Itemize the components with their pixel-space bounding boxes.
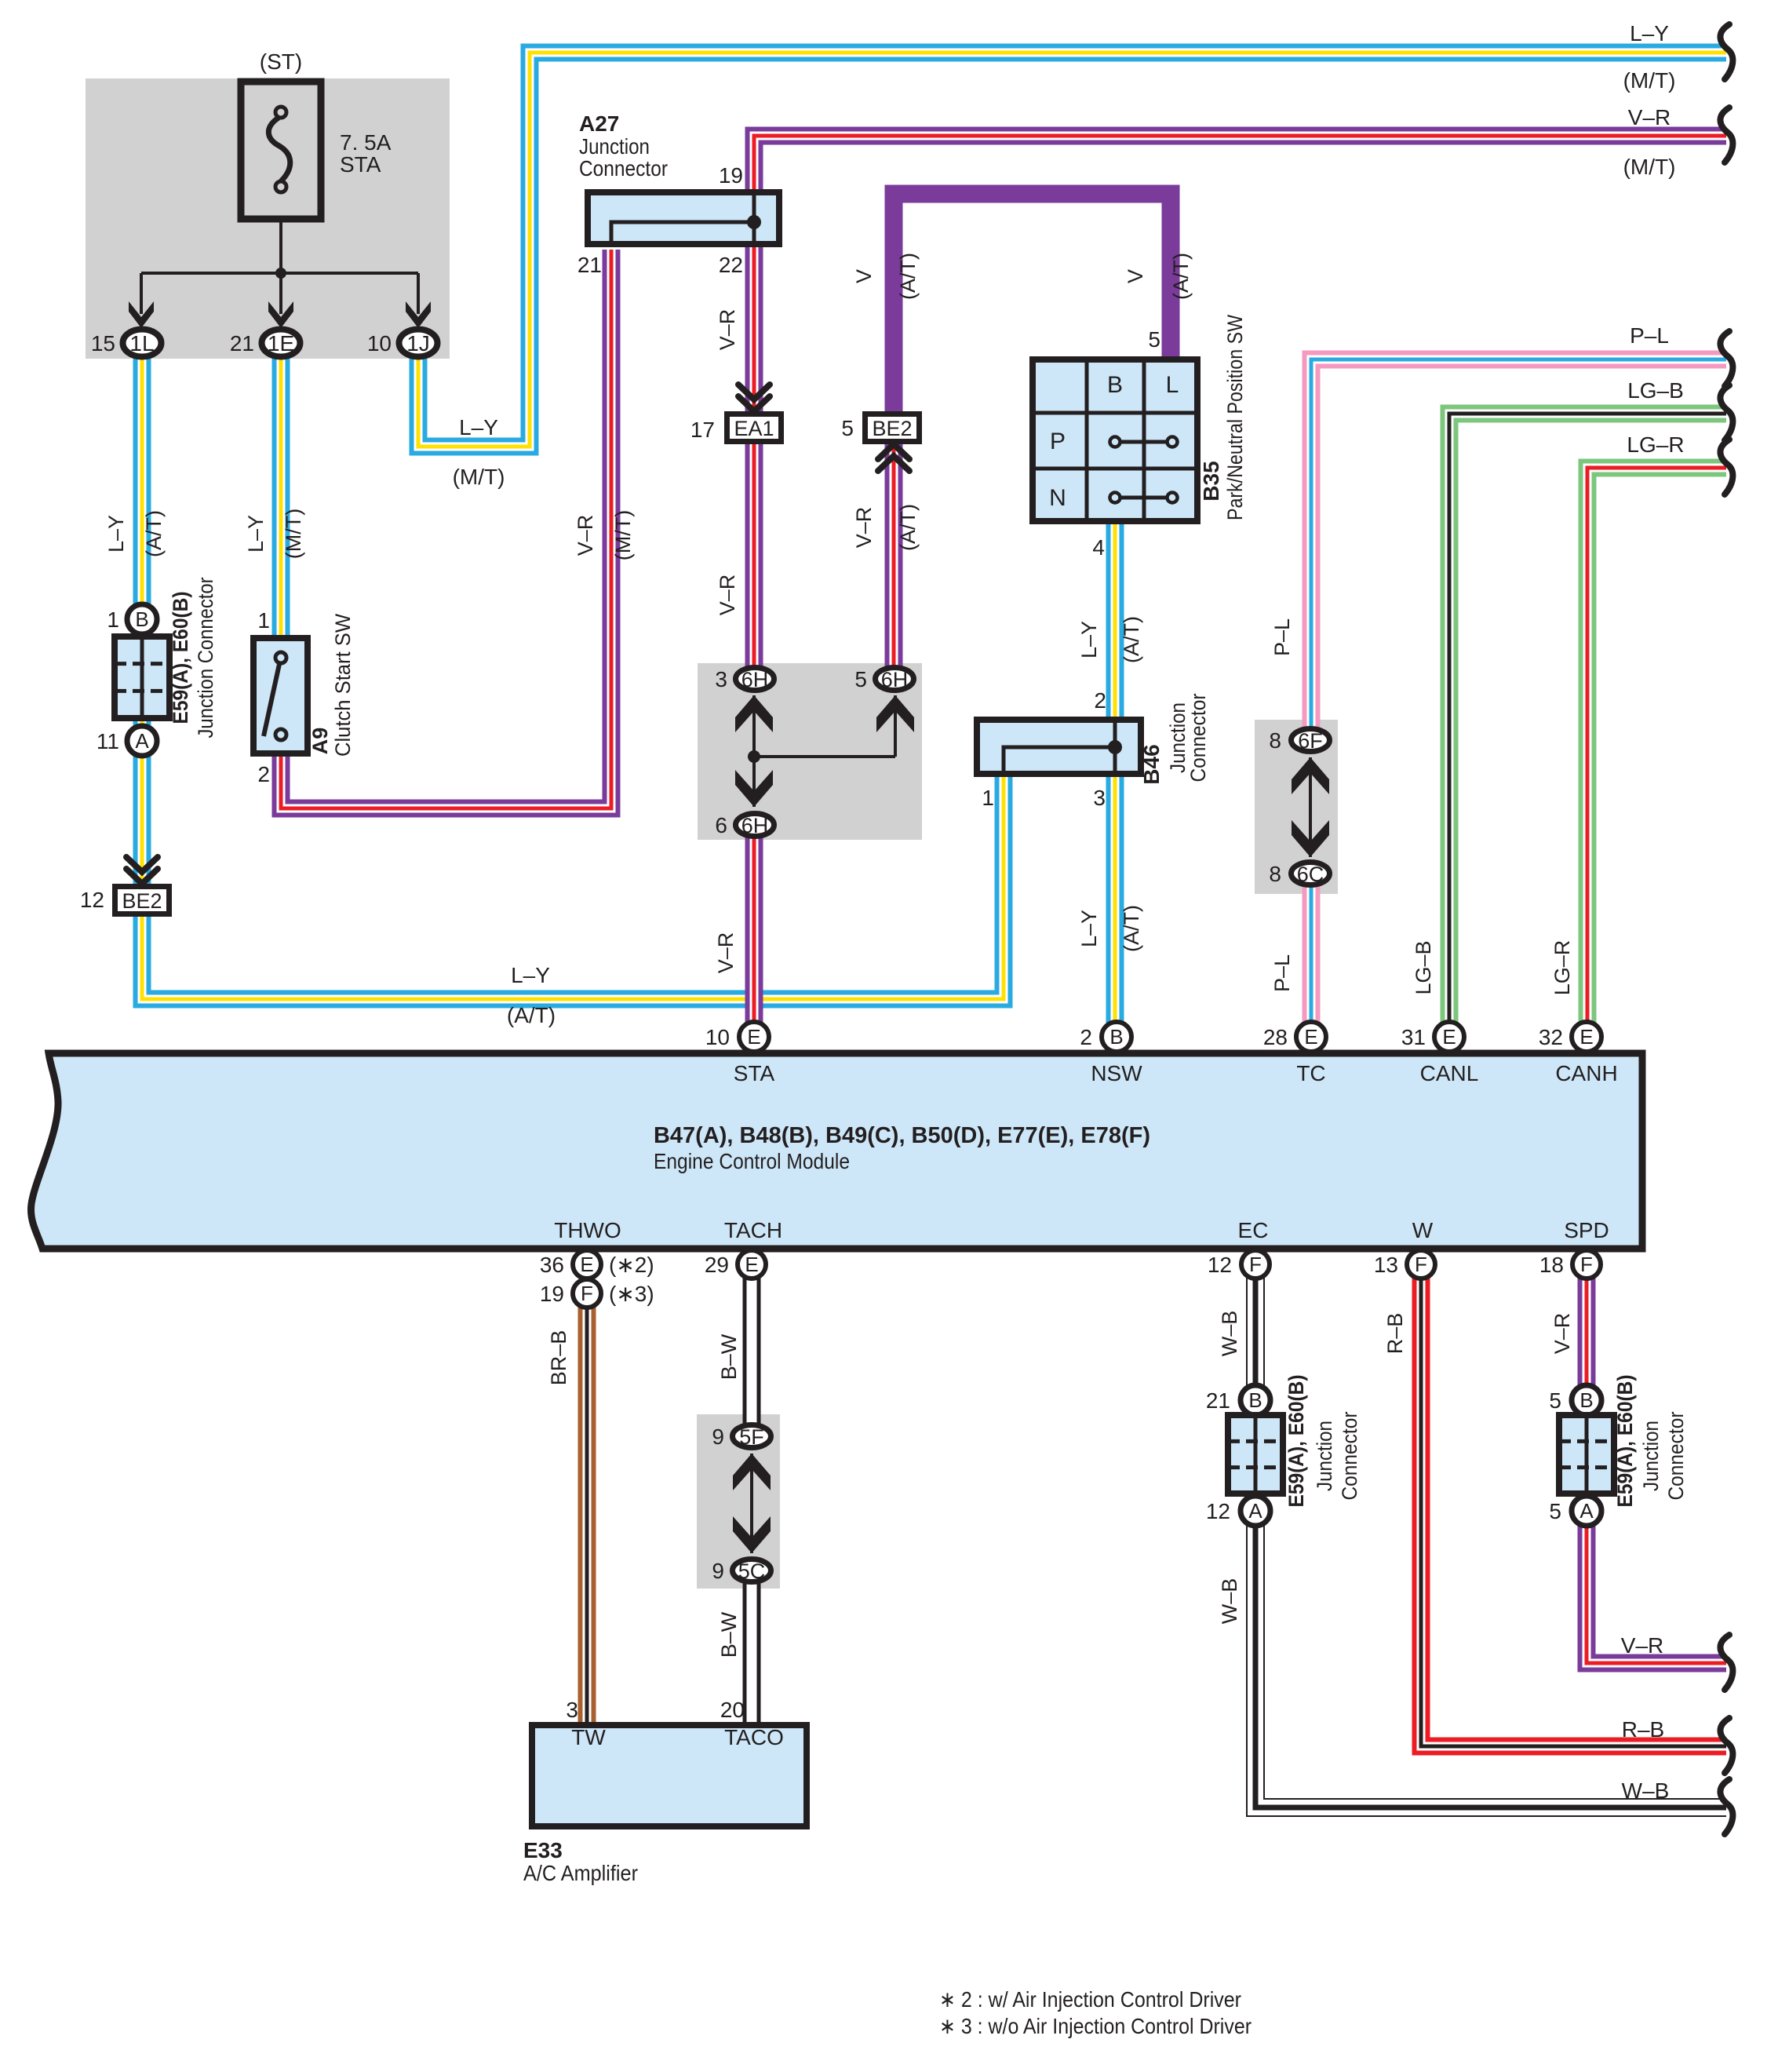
svg-text:E33: E33 bbox=[523, 1838, 563, 1862]
svg-text:B47(A), B48(B), B49(C), B50(D): B47(A), B48(B), B49(C), B50(D), E77(E), … bbox=[654, 1123, 1150, 1148]
svg-text:V–R: V–R bbox=[714, 932, 738, 974]
svg-text:5: 5 bbox=[841, 416, 854, 440]
svg-text:1J: 1J bbox=[406, 331, 430, 356]
svg-text:Engine Control Module: Engine Control Module bbox=[654, 1149, 850, 1173]
svg-text:2: 2 bbox=[1080, 1025, 1092, 1049]
svg-text:A/C Amplifier: A/C Amplifier bbox=[523, 1861, 638, 1885]
svg-text:Junction: Junction bbox=[1313, 1421, 1336, 1491]
svg-text:10: 10 bbox=[705, 1025, 730, 1049]
svg-text:L–Y: L–Y bbox=[511, 963, 550, 987]
svg-text:1: 1 bbox=[257, 608, 270, 633]
svg-text:W–B: W–B bbox=[1218, 1578, 1241, 1625]
svg-text:B46: B46 bbox=[1139, 744, 1164, 784]
svg-text:(M/T): (M/T) bbox=[282, 509, 305, 559]
svg-text:8: 8 bbox=[1269, 728, 1281, 753]
svg-text:P–L: P–L bbox=[1270, 618, 1294, 656]
svg-text:A: A bbox=[135, 729, 149, 753]
svg-text:(ST): (ST) bbox=[260, 49, 302, 74]
svg-text:V–R: V–R bbox=[1621, 1633, 1663, 1658]
svg-text:17: 17 bbox=[690, 418, 715, 442]
svg-text:9: 9 bbox=[712, 1424, 724, 1449]
svg-text:LG–B: LG–B bbox=[1412, 940, 1435, 994]
svg-text:A27: A27 bbox=[579, 111, 619, 136]
svg-text:V–R: V–R bbox=[852, 507, 876, 549]
svg-text:F: F bbox=[1580, 1253, 1593, 1276]
svg-text:Junction: Junction bbox=[579, 134, 650, 159]
svg-text:Junction: Junction bbox=[1639, 1421, 1663, 1491]
svg-text:BR–B: BR–B bbox=[547, 1330, 570, 1386]
svg-text:B35: B35 bbox=[1199, 461, 1223, 501]
svg-text:E: E bbox=[747, 1025, 760, 1049]
svg-text:EC: EC bbox=[1238, 1218, 1269, 1242]
svg-text:(M/T): (M/T) bbox=[611, 510, 635, 560]
svg-text:P: P bbox=[1050, 429, 1066, 454]
svg-text:12: 12 bbox=[1208, 1253, 1232, 1277]
svg-text:6H: 6H bbox=[741, 814, 769, 837]
svg-text:10: 10 bbox=[367, 331, 392, 356]
svg-text:E: E bbox=[1304, 1025, 1317, 1049]
svg-text:L–Y: L–Y bbox=[244, 515, 268, 553]
svg-text:Connector: Connector bbox=[1338, 1411, 1361, 1500]
svg-text:3: 3 bbox=[1093, 786, 1106, 810]
svg-text:21: 21 bbox=[230, 331, 254, 356]
svg-text:29: 29 bbox=[705, 1253, 729, 1277]
svg-text:6: 6 bbox=[715, 813, 727, 837]
svg-text:LG–B: LG–B bbox=[1627, 378, 1684, 403]
svg-text:E59(A), E60(B): E59(A), E60(B) bbox=[169, 592, 192, 724]
svg-text:3: 3 bbox=[566, 1698, 578, 1722]
svg-text:5: 5 bbox=[854, 667, 867, 691]
svg-text:W–B: W–B bbox=[1218, 1311, 1241, 1357]
svg-text:F: F bbox=[581, 1282, 593, 1305]
svg-text:F: F bbox=[1249, 1253, 1262, 1276]
svg-text:BE2: BE2 bbox=[872, 417, 912, 440]
svg-text:(M/T): (M/T) bbox=[1623, 155, 1676, 179]
svg-text:L–Y: L–Y bbox=[1077, 910, 1101, 947]
svg-text:B: B bbox=[1107, 372, 1123, 398]
svg-text:3: 3 bbox=[715, 667, 727, 691]
svg-text:STA: STA bbox=[734, 1061, 775, 1085]
svg-text:22: 22 bbox=[719, 253, 743, 277]
svg-text:(A/T): (A/T) bbox=[507, 1003, 556, 1027]
svg-text:36: 36 bbox=[540, 1253, 564, 1277]
svg-text:Connector: Connector bbox=[1664, 1411, 1688, 1500]
svg-text:V: V bbox=[1124, 269, 1147, 283]
svg-text:(A/T): (A/T) bbox=[1169, 253, 1193, 300]
svg-text:21: 21 bbox=[1206, 1388, 1230, 1413]
svg-text:4: 4 bbox=[1092, 535, 1105, 560]
svg-text:B: B bbox=[1109, 1025, 1123, 1049]
svg-text:5: 5 bbox=[1549, 1388, 1561, 1413]
svg-text:12: 12 bbox=[1206, 1499, 1230, 1523]
svg-text:E: E bbox=[580, 1253, 593, 1276]
svg-text:E59(A), E60(B): E59(A), E60(B) bbox=[1284, 1375, 1308, 1508]
svg-text:32: 32 bbox=[1539, 1025, 1563, 1049]
svg-text:A9: A9 bbox=[308, 728, 332, 755]
svg-text:(M/T): (M/T) bbox=[453, 465, 505, 489]
svg-text:2: 2 bbox=[257, 762, 270, 786]
svg-text:28: 28 bbox=[1263, 1025, 1288, 1049]
svg-text:7. 5A: 7. 5A bbox=[340, 130, 392, 155]
svg-text:B: B bbox=[1579, 1388, 1593, 1412]
svg-text:V–R: V–R bbox=[1628, 105, 1671, 129]
svg-text:(A/T): (A/T) bbox=[896, 253, 920, 300]
svg-text:E59(A), E60(B): E59(A), E60(B) bbox=[1613, 1375, 1637, 1508]
svg-text:SPD: SPD bbox=[1564, 1218, 1609, 1242]
svg-text:L–Y: L–Y bbox=[1077, 621, 1101, 658]
svg-text:P–L: P–L bbox=[1270, 954, 1294, 992]
svg-text:Junction Connector: Junction Connector bbox=[194, 577, 217, 738]
svg-text:A: A bbox=[1248, 1499, 1262, 1523]
svg-text:NSW: NSW bbox=[1091, 1061, 1142, 1085]
svg-text:(A/T): (A/T) bbox=[896, 504, 920, 551]
svg-text:CANL: CANL bbox=[1420, 1061, 1479, 1085]
svg-text:P–L: P–L bbox=[1630, 323, 1669, 348]
svg-text:A: A bbox=[1579, 1499, 1594, 1523]
svg-text:CANH: CANH bbox=[1555, 1061, 1617, 1085]
svg-text:R–B: R–B bbox=[1383, 1313, 1407, 1355]
svg-text:Connector: Connector bbox=[1186, 693, 1210, 782]
svg-text:1L: 1L bbox=[129, 331, 154, 356]
svg-text:19: 19 bbox=[719, 163, 743, 188]
svg-text:11: 11 bbox=[97, 729, 119, 753]
svg-text:13: 13 bbox=[1374, 1253, 1398, 1277]
svg-text:V–R: V–R bbox=[1550, 1313, 1574, 1355]
svg-text:E: E bbox=[1442, 1025, 1456, 1049]
svg-text:V: V bbox=[852, 269, 876, 283]
svg-text:(M/T): (M/T) bbox=[1623, 68, 1676, 93]
svg-text:EA1: EA1 bbox=[734, 417, 774, 440]
svg-text:(∗3): (∗3) bbox=[609, 1282, 654, 1306]
svg-text:5: 5 bbox=[1148, 327, 1160, 352]
svg-text:5: 5 bbox=[1549, 1499, 1561, 1523]
svg-text:W–B: W–B bbox=[1622, 1778, 1670, 1803]
svg-text:5C: 5C bbox=[738, 1559, 766, 1583]
svg-text:V–R: V–R bbox=[574, 515, 597, 556]
svg-text:L–Y: L–Y bbox=[1630, 21, 1669, 46]
svg-text:(A/T): (A/T) bbox=[1120, 905, 1143, 952]
svg-text:31: 31 bbox=[1401, 1025, 1426, 1049]
svg-text:B: B bbox=[135, 607, 148, 631]
svg-text:19: 19 bbox=[540, 1282, 564, 1306]
svg-text:∗ 2 : w/ Air Injection Control: ∗ 2 : w/ Air Injection Control Driver bbox=[939, 1987, 1241, 2012]
svg-text:6F: 6F bbox=[1298, 729, 1323, 753]
svg-text:21: 21 bbox=[577, 253, 602, 277]
svg-text:W: W bbox=[1412, 1218, 1434, 1242]
svg-text:20: 20 bbox=[720, 1698, 745, 1722]
svg-text:(∗2): (∗2) bbox=[609, 1253, 654, 1277]
svg-text:L–Y: L–Y bbox=[459, 415, 498, 440]
svg-text:18: 18 bbox=[1539, 1253, 1564, 1277]
svg-text:Connector: Connector bbox=[579, 156, 668, 181]
svg-text:1: 1 bbox=[107, 607, 119, 632]
svg-text:LG–R: LG–R bbox=[1550, 940, 1574, 996]
svg-text:R–B: R–B bbox=[1622, 1717, 1664, 1742]
svg-text:6H: 6H bbox=[881, 668, 909, 691]
svg-text:6C: 6C bbox=[1297, 863, 1324, 886]
svg-text:TW: TW bbox=[571, 1725, 606, 1749]
svg-text:TC: TC bbox=[1296, 1061, 1325, 1085]
svg-text:2: 2 bbox=[1094, 688, 1106, 713]
svg-text:1: 1 bbox=[982, 786, 994, 810]
svg-text:Clutch Start SW: Clutch Start SW bbox=[331, 614, 355, 757]
svg-text:6H: 6H bbox=[741, 668, 769, 691]
svg-text:1E: 1E bbox=[268, 331, 294, 356]
svg-text:9: 9 bbox=[712, 1559, 724, 1583]
svg-text:E: E bbox=[745, 1253, 758, 1276]
svg-text:LG–R: LG–R bbox=[1627, 432, 1684, 457]
svg-text:E: E bbox=[1579, 1025, 1593, 1049]
svg-text:5F: 5F bbox=[739, 1425, 764, 1449]
svg-text:(A/T): (A/T) bbox=[142, 510, 166, 557]
svg-text:B–W: B–W bbox=[717, 1611, 741, 1658]
svg-text:Park/Neutral Position SW: Park/Neutral Position SW bbox=[1223, 315, 1247, 520]
svg-text:8: 8 bbox=[1269, 862, 1281, 886]
svg-text:B–W: B–W bbox=[717, 1333, 741, 1380]
svg-text:STA: STA bbox=[340, 152, 381, 177]
svg-text:TACO: TACO bbox=[724, 1725, 784, 1749]
svg-text:B: B bbox=[1248, 1388, 1262, 1412]
svg-text:V–R: V–R bbox=[716, 575, 739, 616]
svg-text:L–Y: L–Y bbox=[104, 515, 128, 553]
svg-text:F: F bbox=[1415, 1253, 1427, 1276]
svg-text:TACH: TACH bbox=[724, 1218, 782, 1242]
svg-text:15: 15 bbox=[91, 331, 115, 356]
svg-text:∗ 3 : w/o Air Injection Contro: ∗ 3 : w/o Air Injection Control Driver bbox=[939, 2014, 1252, 2038]
svg-text:N: N bbox=[1049, 485, 1066, 511]
svg-text:THWO: THWO bbox=[554, 1218, 621, 1242]
svg-text:V–R: V–R bbox=[716, 309, 739, 351]
svg-text:L: L bbox=[1166, 372, 1179, 398]
svg-text:12: 12 bbox=[80, 888, 104, 912]
svg-text:BE2: BE2 bbox=[122, 889, 162, 913]
svg-text:(A/T): (A/T) bbox=[1120, 616, 1143, 663]
